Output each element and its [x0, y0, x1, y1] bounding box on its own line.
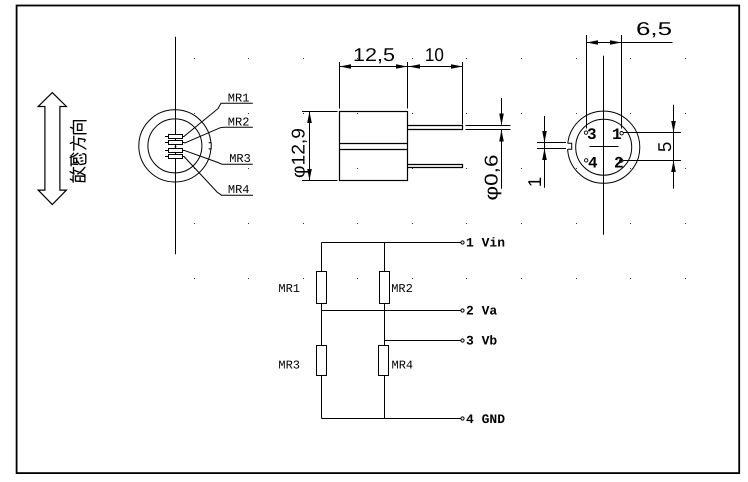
svg-text:3 Vb: 3 Vb — [466, 333, 497, 348]
svg-text:MR2: MR2 — [228, 115, 250, 129]
svg-text:3: 3 — [587, 126, 597, 144]
svg-text:φ12,9: φ12,9 — [288, 128, 309, 178]
svg-text:1 Vin: 1 Vin — [466, 236, 505, 251]
svg-text:5: 5 — [654, 142, 675, 152]
svg-text:MR1: MR1 — [278, 282, 300, 296]
svg-text:MR3: MR3 — [278, 358, 300, 372]
svg-text:4: 4 — [588, 154, 598, 172]
svg-text:4 GND: 4 GND — [466, 412, 505, 427]
svg-text:φ0,6: φ0,6 — [481, 155, 502, 201]
svg-text:6,5: 6,5 — [636, 18, 672, 39]
svg-text:MR2: MR2 — [391, 282, 413, 296]
svg-text:MR3: MR3 — [229, 152, 251, 166]
svg-text:MR1: MR1 — [228, 91, 250, 105]
svg-text:1: 1 — [524, 177, 545, 187]
svg-text:MR4: MR4 — [392, 358, 414, 372]
svg-text:2 Va: 2 Va — [466, 303, 497, 318]
svg-text:MR4: MR4 — [228, 183, 250, 197]
svg-text:10: 10 — [425, 44, 444, 65]
svg-text:1: 1 — [612, 126, 622, 144]
svg-text:2: 2 — [614, 154, 624, 172]
svg-text:12,5: 12,5 — [353, 44, 395, 65]
